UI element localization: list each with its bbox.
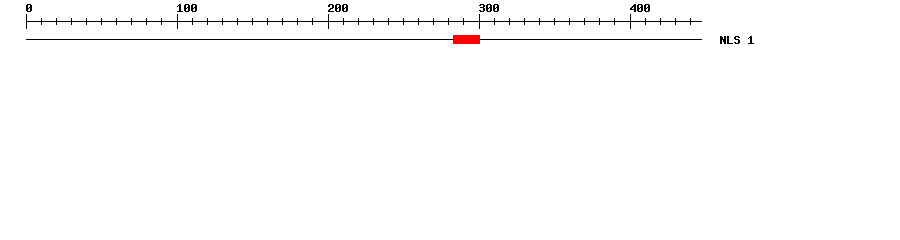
feature box NLS 1 (red, residues ~283-300) <box>453 35 480 44</box>
ruler major tick 0 <box>26 14 27 29</box>
feature label NLS 1 <box>720 36 754 44</box>
ruler axis line <box>26 21 702 22</box>
ruler major tick 300 <box>479 14 480 29</box>
ruler label 100 <box>177 4 197 12</box>
ruler label 0 <box>26 4 32 12</box>
ruler label 300 <box>479 4 499 12</box>
ruler label 200 <box>328 4 348 12</box>
ruler major tick 400 <box>630 14 631 29</box>
sequence backbone line <box>26 39 702 40</box>
ruler minor ticks (every 10 residues) <box>41 18 691 25</box>
ruler major tick 200 <box>328 14 329 29</box>
ruler label 400 <box>630 4 650 12</box>
ruler major tick 100 <box>177 14 178 29</box>
